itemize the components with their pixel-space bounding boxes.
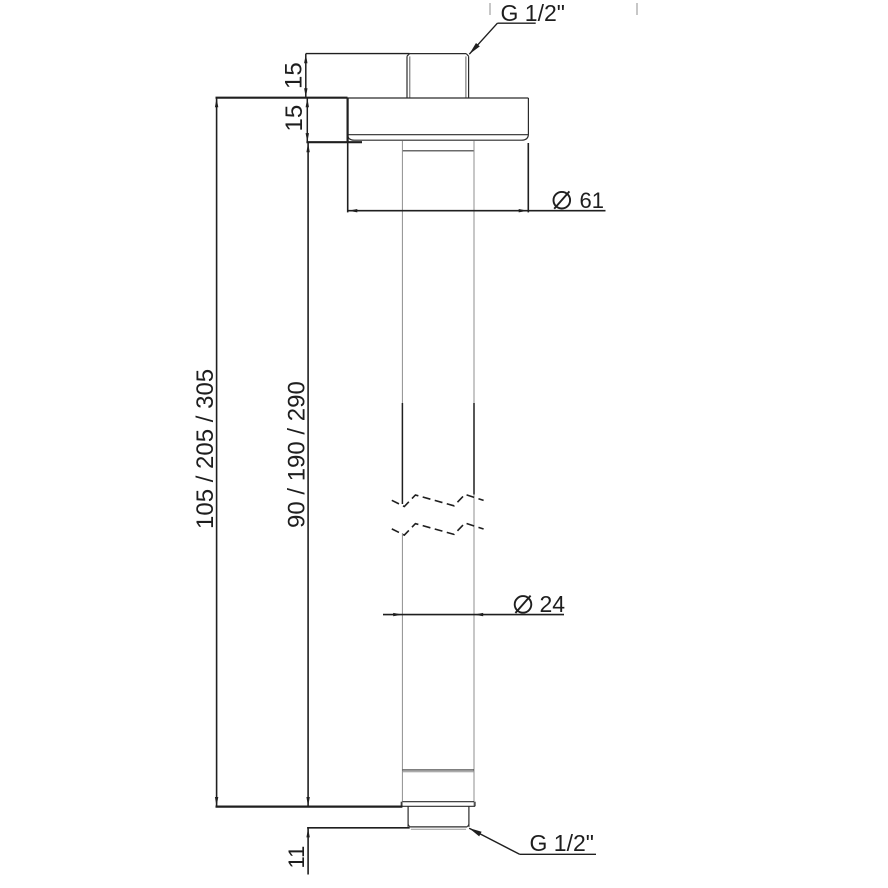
tube dark segment right xyxy=(473,403,475,495)
bottom thread G1/2 xyxy=(408,806,469,829)
break line upper xyxy=(392,494,484,506)
svg-text:24: 24 xyxy=(540,591,566,617)
reference line bottom thick xyxy=(216,805,403,807)
extension line top (y=53.6) xyxy=(306,53,410,55)
crop tick left xyxy=(489,3,491,15)
tube body right edge xyxy=(473,141,475,806)
extension line flange bottom thick xyxy=(306,141,362,143)
dim 11 vertical line xyxy=(307,828,309,875)
label diameter 24 xyxy=(515,596,532,613)
svg-text:15: 15 xyxy=(281,62,308,89)
leader top G 1/2 xyxy=(469,23,535,54)
leader bottom arrowhead xyxy=(469,828,482,836)
dim 90/190/290 vertical line xyxy=(307,143,309,807)
tube neck below flange xyxy=(402,150,474,152)
svg-text:105 / 205 / 305: 105 / 205 / 305 xyxy=(192,369,219,529)
extension line flange top thick xyxy=(216,97,348,99)
dim 15 upper vertical line xyxy=(305,54,307,98)
top thread nipple G1/2 xyxy=(407,54,469,98)
extension line 11 bottom xyxy=(307,827,410,829)
svg-text:G 1/2": G 1/2" xyxy=(530,830,594,856)
svg-text:11: 11 xyxy=(284,846,309,869)
svg-text:61: 61 xyxy=(580,188,604,213)
label diameter 61 xyxy=(554,191,571,208)
crop tick right xyxy=(636,3,638,15)
dim 105/205/305 vertical line xyxy=(216,98,218,807)
leader top arrowhead xyxy=(469,43,480,54)
svg-text:G 1/2": G 1/2" xyxy=(501,0,565,26)
tube body left edge xyxy=(401,141,403,403)
flange (ceiling rose) xyxy=(348,98,529,142)
bottom collar xyxy=(401,802,475,807)
leader bottom G 1/2 xyxy=(469,828,596,854)
dim diameter 61 xyxy=(347,143,349,212)
dim 15 lower vertical line xyxy=(306,98,308,143)
svg-text:15: 15 xyxy=(281,105,308,132)
tube dark segment left xyxy=(401,403,403,504)
dim diameter 24 xyxy=(383,614,564,616)
groove near bottom xyxy=(402,769,474,771)
break line lower xyxy=(392,523,484,535)
svg-text:90 / 190 / 290: 90 / 190 / 290 xyxy=(284,381,311,528)
